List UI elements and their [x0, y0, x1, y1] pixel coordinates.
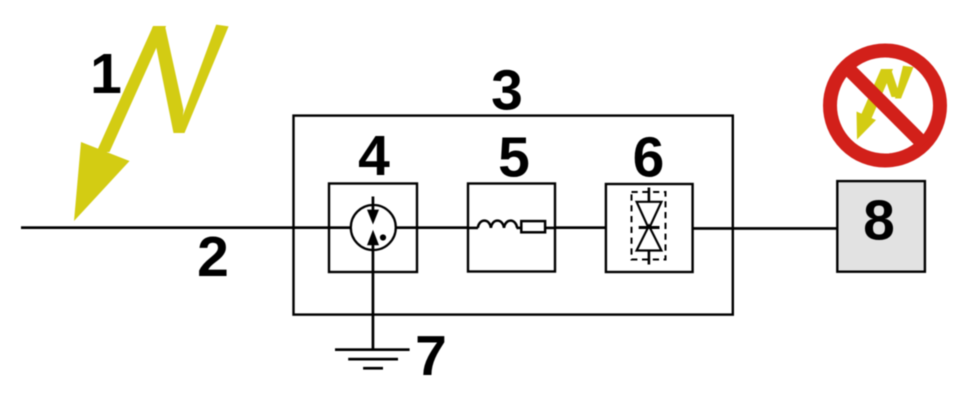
TVS diode lower triangle — [637, 226, 662, 251]
svg-text:8: 8 — [863, 189, 895, 253]
TVS diode center bar — [639, 226, 660, 229]
wire (top stub of diode) — [648, 188, 651, 203]
lightning bolt arrow (surge) — [74, 25, 229, 221]
component box 4 — [329, 184, 417, 273]
component box 6 — [606, 184, 693, 272]
ground symbol bar 2 — [348, 358, 398, 361]
prohibition slash — [846, 67, 924, 145]
wire (between box 4 and box 5) — [417, 226, 468, 229]
no-lightning prohibition sign: small bolt — [857, 66, 914, 140]
gas discharge tube U (circle) — [351, 205, 396, 250]
component box 5 — [468, 184, 555, 272]
svg-text:6: 6 — [633, 126, 665, 190]
arrow up (in circle) — [367, 230, 379, 246]
ground symbol bar 1 — [335, 348, 410, 351]
arrow down (in circle) — [367, 210, 379, 225]
wire (inside box 4, right stub) — [395, 226, 417, 229]
wire (box 6 to enclosure edge and out to box 8) — [693, 227, 838, 230]
wire (vertical to ground) — [372, 244, 375, 350]
svg-text:4: 4 — [358, 124, 390, 188]
prohibition ring — [830, 51, 940, 161]
wire (vertical above circle) — [372, 197, 375, 211]
TVS diode upper triangle — [637, 202, 662, 229]
svg-text:7: 7 — [415, 324, 447, 388]
electrode dot — [380, 234, 386, 240]
wire (inside box 4, left stub) — [329, 226, 352, 229]
svg-text:5: 5 — [498, 126, 530, 190]
inductor L — [478, 221, 517, 228]
wire (input line, node 2) — [21, 226, 330, 229]
wire (bottom stub of diode) — [648, 251, 651, 265]
enclosure box 3 — [294, 116, 733, 315]
resistor R — [521, 221, 545, 232]
svg-text:2: 2 — [197, 225, 229, 289]
ground symbol bar 3 — [363, 367, 383, 370]
svg-text:3: 3 — [491, 59, 523, 123]
wire (coil to resistor) — [517, 227, 523, 230]
wire (resistor to box edge) — [545, 227, 555, 230]
svg-text:1: 1 — [90, 42, 122, 106]
terminal box 8 (protected device) — [837, 181, 925, 272]
TVS diode dashed enclosure — [632, 192, 666, 260]
wire (between box 5 and box 6) — [555, 226, 607, 229]
wire (inside box 5, left stub) — [469, 227, 478, 230]
